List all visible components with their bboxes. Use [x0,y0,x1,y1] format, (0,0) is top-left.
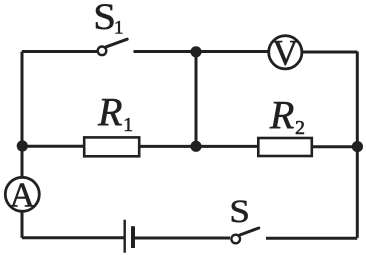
battery BT1 [125,220,133,253]
svg-text:1: 1 [114,18,124,39]
node junction middle (tap meets middle wire) [190,141,201,152]
resistor R1 [84,137,139,156]
voltmeter U1 V [269,33,302,73]
svg-text:A: A [10,176,36,215]
svg-text:S: S [93,0,116,38]
resistor R2 [258,138,312,156]
svg-text:S: S [229,193,250,230]
ammeter U2 A [5,176,39,215]
svg-text:V: V [272,33,298,73]
switch S [231,228,258,243]
wire middle left (left junction to R1) [22,145,84,148]
svg-text:R: R [97,89,122,134]
svg-text:2: 2 [295,117,305,139]
switch S1 [98,39,128,55]
wire bottom-left horizontal (left rail to battery) [22,236,124,239]
wire vertical tap from top junction to middle wire [195,52,198,147]
svg-text:R: R [269,93,294,138]
wire right vertical rail [356,52,359,238]
wire top-left horizontal (battery+ loop to switch S1) [22,50,98,53]
node junction top (tap to R1/R2 midpoint) [190,46,201,57]
wire left vertical below ammeter [21,211,24,238]
node junction left (left rail meets middle wire) [17,140,28,151]
wire middle center (R1 to R2 through middle junction) [140,145,257,148]
wire bottom-right horizontal (switch S to right rail) [266,237,357,240]
wire top-right horizontal (voltmeter to right rail) [303,51,358,54]
wire bottom middle (battery to switch S) [135,237,231,240]
node junction right (right rail meets middle wire) [352,141,363,152]
wire left vertical rail upper [21,52,24,147]
wire middle right (R2 to right junction) [313,145,357,148]
wire top middle (switch S1 to voltmeter) [134,50,269,53]
wire left vertical between junction and ammeter [21,146,24,178]
svg-text:1: 1 [123,114,133,136]
